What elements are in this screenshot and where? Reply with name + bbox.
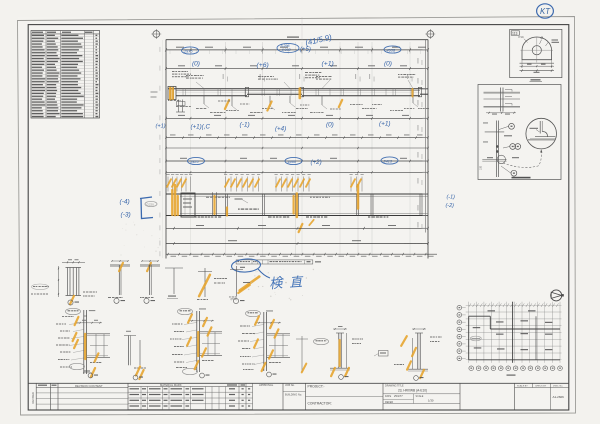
A leader labels left — [56, 324, 58, 325]
svg-text:1925: 1925 — [190, 160, 199, 164]
bolts — [496, 145, 498, 147]
line y148 — [166, 147, 428, 149]
svg-text:CHECK BY: CHECK BY — [535, 386, 547, 388]
grey G220 stamp — [145, 201, 157, 206]
top dim sub ticks — [169, 51, 171, 55]
revised vertical cell — [35, 383, 37, 409]
A orange — [75, 317, 79, 325]
dome detail box — [510, 29, 562, 77]
upper sub-drawing dims — [486, 112, 516, 114]
grid line y118 — [166, 117, 428, 119]
svg-text:(+1)(,C: (+1)(,C — [191, 124, 211, 131]
left column zone in band — [181, 193, 195, 217]
svg-text:(-1): (-1) — [447, 195, 456, 201]
blue ellipse 4938 — [384, 46, 401, 53]
svg-text:DWG. No.: DWG. No. — [553, 386, 563, 388]
band column dividers — [225, 194, 227, 216]
key plan building outline (heavy) — [469, 315, 491, 317]
svg-text:(P.W): (P.W) — [231, 297, 237, 301]
key plan top hatch — [469, 303, 471, 307]
orange bars in band — [171, 190, 173, 215]
upper joint sub-drawing — [500, 88, 502, 112]
svg-text:MATERIAL MARK: MATERIAL MARK — [160, 383, 182, 387]
dimension rows below band — [166, 227, 428, 229]
svg-text:(+2): (+2) — [311, 159, 322, 166]
column base detail F (x395-433) — [417, 333, 419, 369]
svg-text:(-2): (-2) — [446, 203, 455, 209]
svg-text:(+1): (+1) — [322, 61, 334, 68]
key plan row bubbles — [457, 305, 462, 310]
svg-text:JOB No.: JOB No. — [285, 383, 295, 387]
right dim column rotated text — [417, 58, 420, 64]
svg-text:DATE: DATE — [385, 395, 392, 398]
svg-text:23, HRXWB (A-E10): 23, HRXWB (A-E10) — [398, 389, 427, 393]
top dimension line 17800 — [166, 49, 428, 51]
middle member — [495, 121, 497, 178]
svg-text:2975: 2975 — [183, 49, 193, 53]
blue annotation KT circle — [537, 4, 554, 18]
svg-text:REVISED: REVISED — [31, 392, 35, 404]
rotated dim text above beam — [222, 74, 225, 79]
svg-text:(0): (0) — [326, 122, 334, 129]
svg-text:CONTRACTOR:: CONTRACTOR: — [308, 402, 332, 406]
blue ellipse 5296 — [277, 43, 299, 52]
joint detail A — [66, 308, 81, 314]
svg-text:1/30: 1/30 — [428, 399, 434, 403]
orange highlights on beam row — [169, 88, 172, 99]
mid detail between C and E — [301, 336, 303, 372]
svg-text:(-1): (-1) — [240, 122, 250, 129]
extra below-beam labels — [218, 101, 220, 102]
revision table — [50, 383, 52, 409]
joint detail C (x179-222) — [178, 308, 193, 314]
svg-text:4938: 4938 — [387, 48, 396, 52]
detail D6 brace (mid) — [236, 266, 238, 296]
centreline target symbols — [153, 31, 160, 38]
left margin labels — [151, 92, 158, 93]
svg-text:113: 113 — [512, 31, 518, 35]
second horizontal line — [166, 68, 428, 70]
svg-text:(+1): (+1) — [379, 121, 391, 128]
line y172.3 — [166, 171, 428, 173]
parts list table — [31, 31, 100, 119]
svg-text:(+1): (+1) — [156, 124, 166, 130]
big detail bubble — [526, 118, 557, 149]
svg-text:BUILDING No.: BUILDING No. — [285, 392, 302, 396]
svg-text:2413: 2413 — [383, 160, 393, 164]
beam vertical stiffener ticks — [182, 89, 184, 96]
connection detail box — [478, 85, 561, 180]
dim line y161 — [166, 160, 428, 162]
member designation box (blue circled) — [236, 260, 313, 264]
svg-text:(-3): (-3) — [121, 212, 131, 219]
A dims top — [76, 322, 102, 324]
svg-text:KT: KT — [540, 7, 551, 16]
stiffeners below beam with leaders — [203, 96, 205, 104]
dwg no block — [514, 383, 516, 409]
svg-text:DRAWING TITLE: DRAWING TITLE — [385, 385, 404, 388]
connection caption — [512, 177, 531, 179]
leaders and labels above beam — [172, 71, 175, 72]
dome dims — [520, 70, 555, 72]
svg-text:(+4): (+4) — [275, 126, 286, 133]
detail D3 tee — [140, 264, 160, 266]
lower girder plan band — [166, 193, 428, 195]
column block left — [168, 87, 176, 100]
blue leader to kanji — [258, 269, 270, 278]
stiffener tick row above lower band — [167, 177, 169, 192]
svg-text:(-4): (-4) — [120, 199, 130, 206]
key plan column bubbles — [469, 366, 474, 371]
svg-text:(0): (0) — [192, 61, 200, 68]
blue circle around designation box — [231, 258, 261, 273]
dim line y137.7 — [166, 137, 428, 139]
left edge dim ticks — [159, 47, 162, 52]
photocopy speckles — [268, 272, 269, 273]
svg-text:REVISION CONTENT: REVISION CONTENT — [75, 384, 103, 388]
labels in connection box — [504, 135, 512, 136]
dome inner circle — [532, 46, 541, 55]
key plan caption — [507, 375, 516, 376]
svg-text:(+6): (+6) — [257, 62, 269, 69]
key plan cell labels — [488, 310, 496, 311]
svg-text:PROJECT:-: PROJECT:- — [308, 385, 325, 389]
svg-text:100: 100 — [480, 165, 483, 170]
svg-text:SCALE: SCALE — [416, 395, 424, 398]
dome label 113 — [511, 31, 519, 35]
splice plates on beam — [245, 87, 248, 97]
svg-text:P1C: P1C — [519, 35, 524, 39]
A beam to right — [87, 333, 110, 335]
dome caption W1C-1 — [531, 79, 541, 80]
svg-text:4460: 4460 — [288, 160, 297, 164]
detail D1 column section — [67, 268, 69, 296]
svg-text:4,908: 4,908 — [282, 48, 291, 52]
svg-text:A1-2606: A1-2606 — [553, 395, 565, 399]
material table — [128, 386, 226, 388]
detail D4 plain tee W1-1 — [165, 267, 183, 269]
gusset joint circle — [497, 155, 505, 163]
orange slashes on stiffener row — [167, 179, 171, 187]
north arrow — [551, 290, 562, 301]
bottom strip outer — [28, 382, 569, 384]
svg-text:(+5): (+5) — [300, 47, 311, 53]
svg-text:25/1/77: 25/1/77 — [394, 394, 403, 398]
dome base lines — [520, 62, 555, 64]
dashed leader to bubble — [503, 152, 541, 168]
blue row y161 — [188, 157, 205, 164]
svg-text:G220: G220 — [147, 203, 155, 207]
G1 label mid — [314, 338, 329, 344]
svg-text:APPROVAL: APPROVAL — [259, 383, 274, 387]
faint column grid lines — [190, 42, 192, 256]
svg-text:SCALE BY: SCALE BY — [517, 385, 528, 388]
small plate detail between E and F — [379, 351, 389, 357]
detail D2 tee — [110, 264, 130, 266]
key plan G2 stamp — [470, 336, 481, 341]
section detail B small — [128, 336, 130, 366]
column base detail E (x315-353) — [338, 333, 340, 368]
req mark table — [226, 386, 253, 388]
joint detail D (x246-299) — [246, 310, 261, 316]
left small column detail at beam — [178, 100, 180, 113]
svg-text:(0): (0) — [384, 61, 392, 68]
key plan grid — [466, 304, 562, 306]
circled item numbers — [509, 123, 515, 129]
main plan frame — [165, 40, 167, 259]
dome shape — [522, 37, 552, 60]
blue ellipse 2975 — [182, 47, 199, 54]
girder elevation band — [168, 88, 428, 90]
detail D5 brace — [204, 268, 206, 297]
band member labels — [195, 216, 197, 217]
